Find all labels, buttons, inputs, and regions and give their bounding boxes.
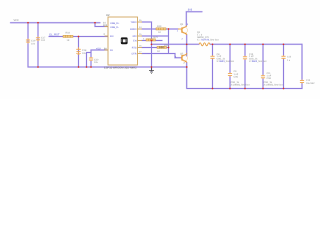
- node gnd/186: [186, 66, 188, 68]
- wire VCC jog to U2 pin: [95, 23, 108, 27]
- svg-text:10u/16V: 10u/16V: [306, 82, 315, 85]
- svg-text:5V: 5V: [104, 48, 107, 51]
- wire GL_RST net: [49, 36, 108, 38]
- svg-text:C0G: C0G: [267, 77, 272, 80]
- transistor Q5: [181, 53, 188, 63]
- node gnd2/c1: [212, 88, 214, 90]
- ground symbol: [149, 67, 154, 73]
- wire 3V3 rail segment left: [152, 43, 200, 45]
- wire C18 branch vertical: [78, 37, 80, 68]
- node rail/c1: [212, 43, 214, 45]
- wire RXD to Q4 base: [142, 28, 178, 30]
- wire 3V3 at Q4 collector: [186, 12, 202, 26]
- wire cap column 3: [244, 44, 246, 88]
- node rail/c2: [229, 43, 231, 45]
- node VCC/jog: [94, 22, 96, 24]
- svg-text:U2: U2: [106, 14, 110, 17]
- svg-text:1K: 1K: [67, 39, 70, 42]
- svg-text:RTS: RTS: [132, 47, 137, 50]
- svg-text:GND: GND: [159, 46, 165, 49]
- capacitor C10 col3 upper: [243, 56, 247, 60]
- capacitor C12 col5 upper: [281, 55, 285, 59]
- wire cap column 4: [262, 44, 264, 88]
- wire IO0 net: [142, 35, 169, 37]
- resistor R21: [146, 39, 156, 41]
- svg-text:R18: R18: [66, 32, 71, 35]
- U2 pin numbers right: [139, 19, 145, 54]
- svg-text:1 nF: 1 nF: [234, 73, 239, 76]
- svg-text:C12: C12: [287, 56, 292, 59]
- svg-text:3V3: 3V3: [188, 9, 193, 12]
- svg-text:C0G_1k: C0G_1k: [249, 58, 258, 61]
- IC box U2: [108, 17, 138, 65]
- label C8: [217, 53, 235, 63]
- svg-text:IO0: IO0: [133, 35, 138, 38]
- node gnd/C17: [37, 66, 39, 68]
- wire cap column 1: [212, 44, 214, 88]
- svg-text:1K: 1K: [157, 50, 160, 53]
- svg-text:DTR: DTR: [132, 53, 137, 56]
- capacitor C20: [89, 57, 93, 61]
- node rail/c3: [244, 43, 246, 45]
- svg-text:ESP32-WROOM-32D-N4R2: ESP32-WROOM-32D-N4R2: [104, 66, 137, 69]
- svg-text:X=(0603)_first foot: X=(0603)_first foot: [264, 84, 283, 87]
- wire GND rail bottom right: [187, 88, 302, 90]
- resistor R20: [157, 46, 167, 48]
- svg-text:EN: EN: [110, 35, 114, 38]
- node gnd/C20: [90, 66, 92, 68]
- svg-text:104: 104: [41, 39, 46, 42]
- node gnd/flag: [151, 66, 153, 68]
- wire C19 branch vertical: [27, 23, 29, 67]
- node TXD/R21: [151, 40, 153, 42]
- svg-text:C0G_1k: C0G_1k: [264, 81, 273, 84]
- svg-text:C0G_1k: C0G_1k: [231, 81, 240, 84]
- wire cross-couple vertical: [168, 29, 170, 54]
- svg-text:104: 104: [31, 42, 36, 45]
- label C13: [306, 79, 315, 85]
- U2 chip glyph: [121, 37, 128, 44]
- node gnd/shield: [86, 66, 88, 68]
- label C11: [264, 72, 283, 87]
- label C9: [231, 70, 250, 86]
- U2 pin names right: [130, 21, 137, 56]
- node rail/151: [151, 43, 153, 45]
- label C12: [287, 56, 292, 62]
- svg-text:RXD0: RXD0: [130, 28, 137, 31]
- capacitor C18 (polarized): [76, 47, 81, 55]
- label Q4 attributes: [197, 31, 219, 42]
- wire cap column 5: [283, 44, 285, 88]
- capacitor C9 col2 lower: [228, 73, 232, 77]
- svg-text:3V3: 3V3: [103, 24, 108, 27]
- U2 right pin stubs: [138, 22, 143, 54]
- capacitor C13 right end: [300, 80, 304, 84]
- transistor Q4: [178, 26, 188, 35]
- wire TXD corner down to gnd flag: [142, 22, 152, 71]
- node gnd2/c3: [244, 88, 246, 90]
- node VCC/C19: [27, 22, 29, 24]
- node RST/C18: [78, 36, 80, 38]
- node gnd/C18: [78, 66, 80, 68]
- resistor R18: [63, 35, 73, 37]
- wire VCC rail: [11, 22, 101, 24]
- node gnd2/c4: [262, 88, 264, 90]
- svg-text:S8050_J3Y: S8050_J3Y: [197, 36, 209, 39]
- svg-text:VCC: VCC: [14, 19, 19, 22]
- svg-text:X=(0603)_first foot: X=(0603)_first foot: [231, 84, 250, 87]
- svg-text:R19: R19: [157, 25, 162, 28]
- svg-text:5V: 5V: [110, 49, 113, 52]
- wire Q4 emitter down / Q5 collector: [186, 35, 188, 56]
- wire C20 branch vertical: [90, 50, 92, 67]
- wire GND rail left: [28, 66, 187, 68]
- wire shield stub: [87, 52, 92, 54]
- svg-text:USB_D-: USB_D-: [110, 26, 119, 29]
- node rail/c5: [283, 43, 285, 45]
- wire cap column 2: [229, 44, 231, 88]
- svg-text:X=0603_first foot: X=0603_first foot: [217, 60, 235, 63]
- svg-text:C13: C13: [306, 79, 311, 82]
- wire 5V pin net: [91, 49, 108, 51]
- wire pin R21 stub: [142, 40, 162, 42]
- node rail/186: [186, 43, 188, 45]
- capacitor C17: [36, 37, 40, 41]
- node gnd2/c2: [229, 88, 231, 90]
- label C10: [249, 53, 267, 63]
- U2 left pin stubs: [105, 27, 109, 51]
- wire shield vertical: [86, 53, 88, 68]
- svg-text:X=0603_first foot: X=0603_first foot: [249, 60, 267, 63]
- svg-text:+5V: +5V: [96, 47, 101, 50]
- svg-text:C0G_1k: C0G_1k: [217, 58, 226, 61]
- wire C17 branch vertical: [37, 23, 39, 67]
- node rail/c4: [262, 43, 264, 45]
- svg-text:EN: EN: [133, 40, 137, 43]
- svg-text:C0G: C0G: [234, 75, 239, 78]
- svg-text:10u: 10u: [94, 61, 99, 64]
- wire right end vertical: [301, 44, 303, 88]
- svg-text:10u: 10u: [82, 52, 87, 55]
- node VCC/C17: [37, 22, 39, 24]
- wire DTR to Q5 base: [142, 54, 181, 58]
- node RTS/cross: [168, 47, 170, 49]
- inductor L4 squiggle: [199, 43, 210, 46]
- wire RTS net: [142, 47, 169, 49]
- svg-text:X = SOT-23_first foot: X = SOT-23_first foot: [197, 39, 219, 42]
- svg-text:USB_D+: USB_D+: [110, 22, 120, 25]
- svg-text:GL_RST: GL_RST: [49, 33, 60, 36]
- wire Q5 emitter down to bottom rail: [186, 63, 188, 89]
- capacitor C8 col1 upper: [210, 55, 214, 59]
- capacitor C19: [26, 39, 30, 44]
- U2 pin names left: [110, 22, 120, 52]
- svg-text:1K: 1K: [158, 31, 161, 34]
- svg-text:TXD0: TXD0: [130, 21, 137, 24]
- node gnd2/c5: [283, 88, 285, 90]
- svg-text:R21: R21: [154, 36, 159, 39]
- svg-text:R20: R20: [164, 44, 169, 47]
- resistor R19: [156, 28, 166, 30]
- capacitor C11 col4 lower: [261, 75, 265, 79]
- svg-text:1 nF: 1 nF: [267, 75, 272, 78]
- wire 3V3 rail segment right: [210, 43, 302, 45]
- node RXD/cross: [168, 28, 170, 30]
